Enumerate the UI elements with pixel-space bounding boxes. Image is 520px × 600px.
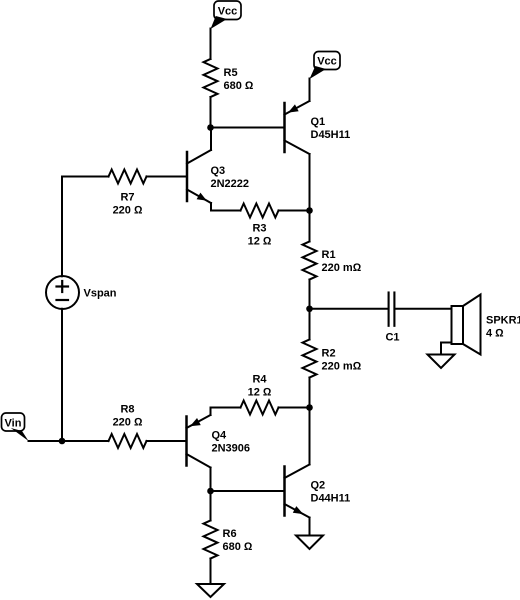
resistor R3 <box>241 204 279 218</box>
wire node B to R2 <box>309 309 311 340</box>
resistor R1 <box>303 242 317 280</box>
svg-text:Q4: Q4 <box>212 430 228 442</box>
svg-text:680 Ω: 680 Ω <box>223 541 253 553</box>
junction Vin node <box>59 438 66 445</box>
resistor R4 <box>241 401 279 415</box>
net flag Vcc (top) <box>211 1 242 29</box>
svg-text:12 Ω: 12 Ω <box>248 387 272 399</box>
svg-text:R1: R1 <box>322 249 336 261</box>
resistor R8 <box>109 434 147 448</box>
svg-text:Vspan: Vspan <box>84 288 117 300</box>
svg-text:R8: R8 <box>120 404 134 416</box>
svg-text:C1: C1 <box>385 332 399 344</box>
svg-text:220 Ω: 220 Ω <box>113 417 143 429</box>
svg-text:R5: R5 <box>224 67 238 79</box>
svg-text:Q3: Q3 <box>211 165 226 177</box>
svg-text:2N2222: 2N2222 <box>211 178 250 190</box>
wire left rail top <box>61 177 63 277</box>
wire R1 to node B <box>309 280 311 309</box>
svg-text:220 mΩ: 220 mΩ <box>322 361 362 373</box>
voltage source Vspan <box>46 276 79 309</box>
wire to R8 <box>62 440 109 442</box>
svg-text:R3: R3 <box>252 223 266 235</box>
wire Vcc to R5 <box>210 29 212 60</box>
wire R5 to node A <box>210 97 212 128</box>
wire node D to Q2 base <box>211 490 285 492</box>
wire Q3 emitter to R3 <box>211 203 241 211</box>
svg-text:4 Ω: 4 Ω <box>486 328 504 340</box>
resistor R2 <box>303 340 317 378</box>
net flag Vcc (right) <box>310 52 341 80</box>
wire R8 to Q4 base <box>147 440 187 442</box>
wire R2 to node C <box>309 378 311 408</box>
wire R4 to node C <box>279 407 310 409</box>
wire Vin to node <box>29 440 63 442</box>
wire node B to C1 <box>310 308 388 310</box>
net flag Vin <box>2 413 29 441</box>
svg-text:680 Ω: 680 Ω <box>224 80 254 92</box>
svg-text:R7: R7 <box>120 192 134 204</box>
wire Q2 collector to node C <box>309 408 311 465</box>
transistor Q1 <box>285 101 310 154</box>
wire C1 to speaker <box>396 308 452 310</box>
junction node A <box>207 124 214 131</box>
wire Q3 collector to node A <box>210 128 212 151</box>
wire Q4 collector to node D <box>210 468 212 492</box>
svg-text:220 Ω: 220 Ω <box>113 205 143 217</box>
ground (speaker) <box>428 355 455 369</box>
svg-text:Vcc: Vcc <box>218 6 238 18</box>
speaker SPKR1 <box>452 295 481 355</box>
svg-text:2N3906: 2N3906 <box>212 443 251 455</box>
transistor Q2 <box>285 465 310 518</box>
svg-text:Q2: Q2 <box>311 480 326 492</box>
wire speaker to ground <box>441 343 452 355</box>
svg-text:D45H11: D45H11 <box>311 129 351 141</box>
resistor R7 <box>109 170 147 184</box>
svg-text:Vcc: Vcc <box>317 56 337 68</box>
svg-text:Vin: Vin <box>5 418 22 430</box>
svg-text:R2: R2 <box>322 348 336 360</box>
wire Vcc to Q1 emitter <box>309 79 311 102</box>
wire R7 input <box>62 176 109 178</box>
wire Q1 collector to R1 <box>309 154 311 242</box>
ground (bottom) <box>197 584 224 597</box>
wire node A to Q1 base <box>211 127 285 129</box>
wire R3 to rail <box>279 210 310 212</box>
resistor R6 <box>204 521 218 559</box>
junction node B <box>306 305 313 312</box>
resistor R5 <box>204 59 218 97</box>
junction node D <box>207 488 214 495</box>
wire R6 to ground <box>210 559 212 585</box>
junction R3/collector rail <box>306 207 313 214</box>
svg-text:R4: R4 <box>252 374 267 386</box>
transistor Q4 <box>187 415 211 468</box>
transistor Q3 <box>187 150 211 203</box>
wire R7 to Q3 base <box>147 176 188 178</box>
svg-text:Q1: Q1 <box>311 116 326 128</box>
capacitor C1 <box>389 293 395 326</box>
svg-text:220 mΩ: 220 mΩ <box>322 262 362 274</box>
svg-text:SPKR1: SPKR1 <box>486 315 520 327</box>
svg-text:12 Ω: 12 Ω <box>248 236 272 248</box>
svg-text:D44H11: D44H11 <box>311 493 351 505</box>
wire left rail bottom <box>61 309 63 441</box>
svg-text:R6: R6 <box>223 528 237 540</box>
wire Q2 emitter to ground <box>309 518 311 536</box>
junction node C <box>306 404 313 411</box>
wire Q4 emitter to R4 <box>211 408 241 416</box>
wire node D to R6 <box>210 491 212 521</box>
ground (Q2 emitter) <box>296 536 323 550</box>
